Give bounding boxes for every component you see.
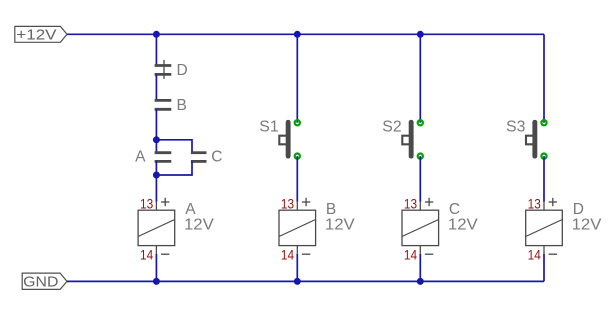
wire branch to contact C xyxy=(156,140,192,153)
svg-text:14: 14 xyxy=(140,248,153,263)
svg-text:D: D xyxy=(573,201,584,218)
wire relay D to bottom rail xyxy=(543,254,545,282)
junction node top rail col1 xyxy=(153,31,160,38)
junction node bottom rail col2 xyxy=(294,278,301,285)
svg-text:B: B xyxy=(177,97,187,114)
junction node bottom of A/C xyxy=(153,172,160,179)
contact D (NC) xyxy=(155,60,172,79)
svg-text:13: 13 xyxy=(281,197,294,212)
relay coil C xyxy=(402,198,439,254)
svg-text:D: D xyxy=(177,62,188,79)
svg-text:14: 14 xyxy=(404,248,417,263)
relay coil B xyxy=(279,198,316,254)
wire relay C to bottom rail xyxy=(419,254,421,282)
svg-text:S3: S3 xyxy=(506,118,525,135)
wire relay A to bottom rail xyxy=(155,254,157,282)
wire node to contact A xyxy=(155,140,157,153)
junction node top of A/C xyxy=(153,136,160,143)
relay coil D xyxy=(526,198,563,254)
relay coil A xyxy=(138,198,175,254)
svg-text:GND: GND xyxy=(23,274,58,291)
wire top rail to S1 xyxy=(296,34,298,122)
wire contact C back to node xyxy=(156,161,192,175)
wire top rail to S2 xyxy=(419,34,421,122)
net label +12V xyxy=(15,26,67,43)
svg-text:C: C xyxy=(211,149,222,166)
svg-text:B: B xyxy=(326,201,336,218)
wire contact A to node xyxy=(155,161,157,175)
pushbutton S2 xyxy=(402,120,423,159)
wire contact B to node xyxy=(155,109,157,140)
svg-text:+12V: +12V xyxy=(16,27,56,44)
svg-text:C: C xyxy=(449,201,460,218)
svg-text:A: A xyxy=(185,201,196,218)
svg-text:13: 13 xyxy=(404,197,417,212)
junction node bottom rail col1 xyxy=(153,278,160,285)
contact C (NO) xyxy=(191,153,207,162)
wire S2 to relay C xyxy=(419,156,421,202)
svg-text:12V: 12V xyxy=(184,216,214,233)
pushbutton S3 xyxy=(526,120,547,159)
svg-text:14: 14 xyxy=(528,248,541,263)
net label GND xyxy=(22,273,67,291)
wire S1 to relay B xyxy=(296,156,298,202)
junction node bottom rail col3 xyxy=(417,278,424,285)
wire column1 top to contact D xyxy=(155,34,157,65)
svg-text:13: 13 xyxy=(528,197,541,212)
wire top rail corner to S3 xyxy=(543,34,545,122)
contact B (NO) xyxy=(155,100,172,109)
svg-text:S1: S1 xyxy=(259,118,278,135)
svg-text:12V: 12V xyxy=(325,216,355,233)
wire relay B to bottom rail xyxy=(296,254,298,282)
contact A (NO) xyxy=(155,153,172,162)
svg-text:A: A xyxy=(135,149,146,166)
junction node top rail col3 xyxy=(417,31,424,38)
wire node to relay A xyxy=(155,175,157,202)
svg-text:12V: 12V xyxy=(448,216,478,233)
svg-text:14: 14 xyxy=(281,248,294,263)
wire +12V top rail xyxy=(67,33,544,35)
wire S3 to relay D xyxy=(543,156,545,202)
svg-text:12V: 12V xyxy=(572,216,602,233)
svg-text:S2: S2 xyxy=(382,118,401,135)
wire GND bottom rail xyxy=(67,280,544,282)
pushbutton S1 xyxy=(279,120,300,159)
junction node top rail col2 xyxy=(294,31,301,38)
wire contact D to contact B xyxy=(155,74,157,100)
svg-text:13: 13 xyxy=(140,197,153,212)
